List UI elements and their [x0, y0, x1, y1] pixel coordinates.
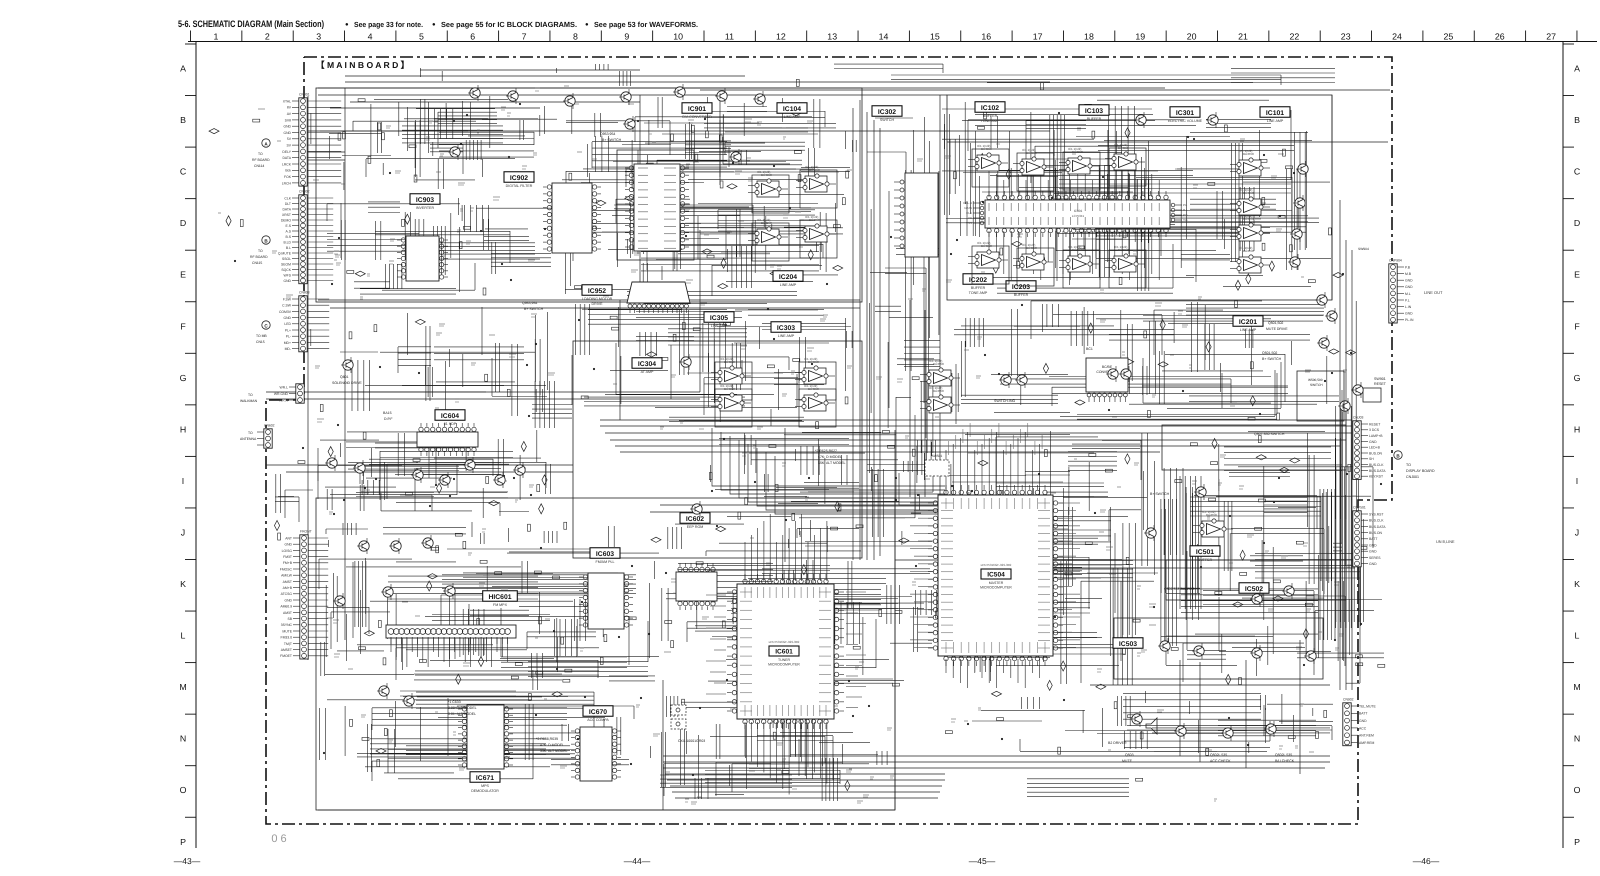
svg-text:BATT: BATT [1359, 712, 1367, 716]
svg-text:SV8: SV8 [285, 118, 292, 122]
svg-text:BUS.DATA: BUS.DATA [1369, 525, 1386, 529]
svg-text:DIGITAL FILTER: DIGITAL FILTER [506, 184, 533, 188]
main board dash-dot border [266, 57, 1392, 824]
IC603 label [590, 548, 620, 564]
vertical CP.5D line [784, 428, 786, 562]
op-amp A19 [1230, 214, 1270, 241]
svg-text:CNP904: CNP904 [1389, 259, 1402, 263]
svg-text:FRONT: FRONT [300, 530, 312, 534]
svg-text:CN15: CN15 [256, 340, 265, 344]
svg-text:MASTER: MASTER [989, 581, 1004, 585]
svg-text:WALKMAN: WALKMAN [240, 399, 258, 403]
svg-text:CN801: CN801 [299, 93, 310, 97]
svg-text:BA4558: BA4558 [761, 221, 772, 225]
svg-text:I: I [1576, 476, 1578, 486]
wire bus y=512 [650, 511, 940, 513]
svg-text:CBL.D: CBL.D [963, 201, 973, 205]
svg-text:IC502: IC502 [1245, 586, 1263, 593]
svg-text:17: 17 [1033, 32, 1043, 42]
svg-text:DELY: DELY [282, 150, 291, 154]
wire mesh region 310,300 [311, 307, 572, 428]
wire bus y=810 [318, 809, 895, 811]
svg-text:BUS.DATA: BUS.DATA [1369, 469, 1386, 473]
wire bus x=853 [852, 108, 854, 560]
wire bus y=780 [667, 779, 945, 781]
svg-text:21: 21 [1238, 32, 1248, 42]
svg-text:LINE AMP: LINE AMP [1267, 119, 1284, 123]
svg-text:GND: GND [284, 598, 292, 602]
svg-text:LRCH: LRCH [282, 181, 292, 185]
svg-text:LAMP+B: LAMP+B [1369, 434, 1383, 438]
svg-text:A: A [180, 64, 186, 74]
wire bus x=700 [699, 230, 701, 392]
svg-text:Q502,533 BUFFER: Q502,533 BUFFER [1164, 587, 1195, 591]
svg-text:8: 8 [573, 32, 578, 42]
svg-text:IC671: IC671 [476, 775, 494, 782]
svg-text:DATA: DATA [282, 156, 291, 160]
svg-text:AMP.REM: AMP.REM [1359, 741, 1375, 745]
IC602 body [676, 563, 717, 610]
svg-text:FOK: FOK [284, 175, 292, 179]
connector CNP904 [1389, 259, 1414, 324]
svg-text:DRIVE: DRIVE [592, 302, 604, 306]
svg-text:BUFFER: BUFFER [1014, 293, 1029, 297]
svg-text:M: M [1573, 682, 1580, 692]
svg-text:CLK: CLK [284, 196, 291, 200]
svg-text:BA4558: BA4558 [724, 360, 735, 364]
svg-text:TUNER: TUNER [778, 658, 791, 662]
svg-text:See page 33 for note.: See page 33 for note. [354, 20, 423, 29]
svg-text:GND: GND [1369, 550, 1377, 554]
transistor Q43 [1264, 721, 1276, 737]
svg-text:GND: GND [1359, 719, 1367, 723]
wire bus y=82 [345, 81, 1050, 83]
svg-text:CNP501: CNP501 [1353, 506, 1366, 510]
wire bus x=1180 [1179, 660, 1181, 756]
svg-text:MD-: MD- [285, 347, 291, 351]
wire bus x=910 [909, 300, 911, 497]
svg-text:WR.GND: WR.GND [274, 392, 289, 396]
svg-text:GND: GND [283, 125, 291, 129]
svg-text:●: ● [345, 22, 349, 28]
IC502 label [1239, 583, 1269, 594]
svg-text:LOADING MOTOR: LOADING MOTOR [582, 297, 613, 301]
svg-text:F: F [180, 321, 186, 331]
wire bus y=505 [660, 504, 947, 506]
transistor Q55 [1351, 382, 1363, 398]
svg-text:9: 9 [624, 32, 629, 42]
svg-text:BA4558: BA4558 [933, 362, 944, 366]
svg-text:5V: 5V [287, 137, 292, 141]
svg-text:SW901: SW901 [1374, 377, 1386, 381]
transistor Q18 [1325, 308, 1337, 324]
svg-text:SW501: SW501 [932, 454, 943, 458]
svg-text:BA4558: BA4558 [1072, 150, 1083, 154]
IC601 top pin fan [745, 514, 827, 581]
svg-text:BA4558: BA4558 [808, 387, 819, 391]
svg-text:GND: GND [1369, 440, 1377, 444]
svg-text:IC301: IC301 [1074, 209, 1083, 213]
svg-text:IC201: IC201 [1239, 319, 1257, 326]
HIC601 pin drops [391, 638, 508, 667]
wire bus y=308 [330, 307, 860, 309]
wire bus x=940 [939, 95, 941, 500]
svg-text:GND: GND [1405, 312, 1413, 316]
svg-text:TONE AMP: TONE AMP [981, 119, 1000, 123]
svg-text:XTAL: XTAL [283, 99, 291, 103]
svg-text:AV: AV [287, 112, 292, 116]
svg-text:ELECTRIC VOLUME: ELECTRIC VOLUME [1168, 119, 1203, 123]
IC604 label [435, 410, 465, 426]
svg-text:AMST: AMST [283, 580, 292, 584]
wire bus y=440 [610, 439, 1346, 441]
transistor Q22 [1106, 366, 1118, 382]
svg-text:P.L: P.L [1405, 298, 1410, 302]
wire bus y=399 [266, 398, 700, 400]
connector CNJ03 [1353, 416, 1386, 480]
svg-text:IC901: IC901 [688, 106, 706, 113]
IC601 outside pin labels [706, 592, 866, 708]
svg-text:B.L: B.L [286, 246, 291, 250]
svg-text:O: O [180, 785, 187, 795]
svg-text:TO: TO [248, 431, 253, 435]
svg-text:4: 4 [368, 32, 373, 42]
svg-text:IC103: IC103 [1085, 108, 1103, 115]
transistor Q7 [753, 91, 765, 107]
op-amp A4 [796, 215, 837, 258]
svg-text:M.B: M.B [1405, 272, 1412, 276]
transistor Q49 [357, 538, 369, 554]
transistor Q48 [389, 538, 401, 554]
transistor Q1 [468, 85, 480, 101]
svg-text:E: E [180, 270, 186, 280]
svg-text:IC504: IC504 [987, 572, 1005, 579]
svg-text:MUTE DRIVE: MUTE DRIVE [1266, 327, 1288, 331]
IC503 label [1113, 638, 1143, 649]
svg-text:Q507-530 SWITCH: Q507-530 SWITCH [1254, 432, 1285, 436]
svg-text:Q503: Q503 [1125, 753, 1134, 757]
transistor Q34 [1250, 591, 1262, 607]
svg-text:GND: GND [283, 279, 291, 283]
svg-text:HIC601: HIC601 [488, 594, 511, 601]
svg-text:D.P.F: D.P.F [384, 417, 393, 421]
IC671 body [458, 705, 513, 769]
switch SW501 [925, 454, 949, 476]
svg-text:IC604: IC604 [441, 413, 459, 420]
svg-text:DATA: DATA [964, 206, 972, 210]
wire mesh region 945,690 [972, 691, 1333, 753]
page numbers [174, 833, 1440, 866]
wire mesh region 310,95 [311, 96, 557, 190]
svg-text:SSOL: SSOL [282, 257, 291, 261]
IC601 bottom pin fan to bus [745, 722, 827, 795]
svg-text:IC305: IC305 [710, 315, 728, 322]
IC301 left/right pins [963, 201, 1188, 225]
svg-text:47K: D MODEL: 47K: D MODEL [540, 743, 564, 747]
svg-text:BUS.ON: BUS.ON [1369, 531, 1383, 535]
transistor Q26 [353, 460, 365, 476]
wire bus x=1300 [1299, 640, 1301, 774]
transistor Q51 [438, 472, 450, 488]
svg-text:AM5ET: AM5ET [281, 648, 292, 652]
svg-text:P: P [1574, 837, 1580, 847]
BC/BE converter [1086, 358, 1128, 402]
transistor Q6 [715, 88, 727, 104]
svg-text:0 6: 0 6 [271, 833, 286, 845]
IC501 label [1190, 546, 1220, 562]
svg-text:B.LD: B.LD [283, 240, 291, 244]
wire mesh region 940,100 [942, 100, 1331, 293]
svg-text:FM MPX: FM MPX [493, 603, 508, 607]
svg-text:5: 5 [419, 32, 424, 42]
svg-text:7: 7 [522, 32, 527, 42]
svg-text:Y.B: Y.B [1183, 218, 1187, 222]
svg-text:KEY.RST: KEY.RST [1369, 475, 1383, 479]
svg-text:*3 R638,R639: *3 R638,R639 [536, 737, 558, 741]
IC203 label [1006, 281, 1036, 297]
svg-text:D/A CONVERTER: D/A CONVERTER [682, 115, 712, 119]
svg-text:H: H [180, 424, 186, 434]
svg-text:LINE AMP: LINE AMP [780, 283, 797, 287]
wire bus y=768 [663, 767, 1325, 769]
svg-text:SERES: SERES [1369, 556, 1381, 560]
svg-text:GND: GND [1405, 279, 1413, 283]
wire mesh region 1160,430 [1161, 431, 1384, 682]
IC603 body [579, 573, 633, 629]
svg-text:Q501,502: Q501,502 [1262, 351, 1277, 355]
svg-text:TO: TO [248, 393, 253, 397]
svg-text:15: 15 [930, 32, 940, 42]
wire mesh region 310,190 [327, 198, 554, 294]
HIC601 hybrid pin row [386, 625, 516, 644]
IC901 inner pin names [638, 168, 676, 248]
op-amp A18 [1230, 188, 1270, 215]
svg-text:MICROCOMPUTER: MICROCOMPUTER [980, 586, 1012, 590]
transistor Q24 [341, 357, 353, 373]
svg-text:uPD75316GF-929-3B9: uPD75316GF-929-3B9 [981, 563, 1012, 567]
svg-text:DEMODULATOR: DEMODULATOR [471, 789, 499, 793]
reset switch SW901 [1363, 377, 1387, 402]
svg-text:See page 53 for WAVEFORMS.: See page 53 for WAVEFORMS. [594, 20, 698, 29]
svg-text:BUS.CLK: BUS.CLK [1369, 519, 1384, 523]
svg-text:Q.MUTE: Q.MUTE [278, 251, 292, 255]
connector CN902 [1343, 698, 1377, 746]
svg-text:RF BOARD: RF BOARD [252, 158, 270, 162]
svg-text:CXX-10001GR03: CXX-10001GR03 [678, 739, 705, 743]
svg-text:AM+B: AM+B [283, 586, 293, 590]
IC602 label [680, 513, 710, 529]
op-amp A9 [968, 144, 1009, 187]
connector FRONT [280, 530, 328, 660]
svg-text:Q801: Q801 [340, 375, 349, 379]
wire bus y=446 [615, 445, 1340, 447]
op-amp A3 [748, 218, 789, 261]
svg-text:LED: LED [284, 322, 291, 326]
svg-text:K: K [1574, 579, 1580, 589]
svg-text:—44—: —44— [624, 856, 651, 866]
wire bus x=860 [859, 100, 861, 560]
svg-text:TO MB: TO MB [256, 334, 267, 338]
op-amp A6 [795, 357, 836, 400]
svg-text:BA4558: BA4558 [809, 168, 820, 172]
op-amp A17 [1230, 149, 1270, 176]
svg-text:Q502L 535: Q502L 535 [1275, 753, 1292, 757]
IC504 microcomputer [928, 485, 1063, 666]
IC604 latch body [417, 423, 478, 456]
svg-text:CN114: CN114 [254, 164, 264, 168]
svg-text:DLT: DLT [285, 202, 291, 206]
svg-text:SEOM: SEOM [281, 262, 291, 266]
svg-text:TM(T: TM(T [284, 642, 292, 646]
svg-text:B+ SWITCH: B+ SWITCH [1262, 357, 1282, 361]
transistor Q15 [1290, 226, 1302, 242]
svg-text:BA4558: BA4558 [1072, 248, 1083, 252]
svg-text:IC104: IC104 [783, 106, 801, 113]
svg-text:J: J [181, 527, 185, 537]
wire bus x=1200 [1199, 662, 1201, 762]
svg-text:MUTE: MUTE [1122, 759, 1133, 763]
svg-text:R.L: R.L [1183, 208, 1188, 212]
IC671 label [470, 772, 500, 793]
IC305 label [704, 312, 734, 328]
op-amp A22 [920, 359, 960, 386]
transistor Q19 [1317, 335, 1329, 351]
op-amp A21 [1193, 510, 1233, 537]
svg-text:IC603: IC603 [596, 551, 614, 558]
svg-text:25: 25 [1444, 32, 1454, 42]
wire bus y=452 [620, 451, 1160, 453]
svg-text:SV: SV [286, 144, 291, 148]
section outline boxes [316, 88, 1346, 810]
transistor Q20 [999, 372, 1011, 388]
wire buses [266, 70, 1390, 810]
svg-text:BA4558: BA4558 [933, 389, 944, 393]
svg-text:K: K [180, 579, 186, 589]
svg-text:TO: TO [258, 249, 263, 253]
IC504 top pin fan [946, 432, 1040, 495]
wire mesh region 940,300 [952, 301, 1339, 424]
svg-text:33K: ALT MODEL: 33K: ALT MODEL [540, 749, 568, 753]
svg-text:D: D [180, 218, 186, 228]
wire bus y=131 [308, 130, 1050, 132]
svg-text:GND: GND [1405, 285, 1413, 289]
wire bus y=108 [330, 107, 540, 109]
transistor Q46 [443, 583, 455, 599]
IC301 chip interior pin names [989, 203, 1159, 225]
svg-text:RESET: RESET [1374, 382, 1387, 386]
svg-text:WFS: WFS [283, 273, 291, 277]
svg-text:CLK: CLK [966, 211, 972, 215]
svg-text:B.S: B.S [286, 235, 292, 239]
IC204 label [773, 271, 803, 287]
wire mesh region 316,430 [318, 430, 550, 518]
svg-text:24: 24 [1392, 32, 1402, 42]
bus fan to tuner section [712, 428, 945, 514]
wire bus x=895 [894, 430, 896, 810]
wire mesh region 700,62 [834, 64, 1335, 85]
IC101 label [1260, 107, 1290, 123]
note texts [332, 132, 1369, 763]
IC901 body [625, 164, 689, 251]
IC201 label [1233, 316, 1263, 332]
svg-text:E: E [1574, 270, 1580, 280]
transistor Q53 [513, 462, 525, 478]
connector CNP501 [1353, 506, 1386, 567]
svg-text:SWITCH: SWITCH [880, 118, 895, 122]
transistor Q9 [623, 116, 635, 132]
svg-text:FM33.0: FM33.0 [281, 636, 293, 640]
svg-text:CNJ001: CNJ001 [1406, 475, 1419, 479]
svg-text:LINE OUT: LINE OUT [1424, 290, 1443, 295]
svg-text:D: D [1574, 218, 1580, 228]
svg-text:BC/BE: BC/BE [1102, 365, 1113, 369]
connector [274, 384, 304, 403]
transistor Q3 [563, 93, 575, 109]
svg-text:20: 20 [1187, 32, 1197, 42]
svg-text:0.01: ALT MODEL: 0.01: ALT MODEL [448, 712, 476, 716]
svg-text:2: 2 [265, 32, 270, 42]
wire bus y=786 [670, 785, 942, 787]
svg-text:—43—: —43— [174, 856, 201, 866]
svg-text:ANT: ANT [285, 536, 292, 540]
IC104 label [777, 103, 807, 119]
svg-text:FMOSC: FMOSC [280, 567, 293, 571]
transistor Q39 [1304, 648, 1316, 664]
wire bus x=720 [719, 95, 721, 185]
transistor Q16 [1288, 254, 1300, 270]
svg-text:C.SW: C.SW [282, 304, 292, 308]
svg-text:Q953,954: Q953,954 [522, 301, 537, 305]
svg-text:IC501: IC501 [1196, 549, 1214, 556]
wire bus y=792 [672, 791, 940, 793]
wire mesh region 945,430 [947, 431, 1158, 685]
svg-text:M: M [179, 682, 186, 692]
svg-text:10: 10 [673, 32, 683, 42]
svg-text:FMOET: FMOET [280, 654, 292, 658]
svg-text:B: B [180, 115, 186, 125]
svg-text:SOLENOID DRIVE: SOLENOID DRIVE [332, 381, 362, 385]
svg-text:IC204: IC204 [779, 274, 797, 281]
svg-text:L.IN: L.IN [1405, 305, 1412, 309]
svg-text:IC102: IC102 [981, 105, 999, 112]
svg-text:AT AMP: AT AMP [641, 370, 654, 374]
svg-text:MPS: MPS [481, 784, 489, 788]
svg-text:LC75341: LC75341 [1072, 214, 1085, 218]
svg-text:3 DCS: 3 DCS [1369, 428, 1380, 432]
wire bus y=774 [665, 773, 945, 775]
wire bus x=1246 [1245, 660, 1247, 768]
svg-text:ACC COMPA: ACC COMPA [587, 718, 609, 722]
svg-text:C: C [180, 167, 187, 177]
svg-text:I: I [182, 476, 184, 486]
wire mesh region 945,762 [1027, 779, 1129, 797]
svg-text:DEMO: DEMO [281, 218, 292, 222]
transistor Q28 [381, 584, 393, 600]
transistor Q47 [421, 535, 433, 551]
connector CN801 [282, 93, 341, 187]
svg-text:C: C [1574, 167, 1581, 177]
svg-text:CN902: CN902 [1343, 698, 1354, 702]
wire bus x=874 [873, 120, 875, 560]
wire bus x=620 [619, 300, 621, 420]
transistor Q52 [463, 457, 475, 473]
transistor Q4 [619, 89, 631, 105]
svg-text:*1 C633: *1 C633 [448, 700, 461, 704]
svg-text:AM3T: AM3T [283, 611, 292, 615]
title [178, 18, 698, 29]
column number ruler [188, 31, 1597, 42]
wire bus x=867 [866, 112, 868, 560]
